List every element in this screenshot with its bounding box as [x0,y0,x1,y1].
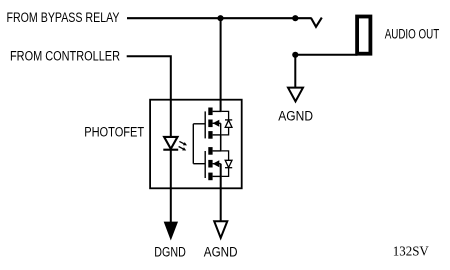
Q1 drain lead [213,110,222,112]
svg-text:AUDIO OUT: AUDIO OUT [385,27,440,42]
wire: controller to LED anode [127,56,171,137]
svg-text:FROM BYPASS RELAY: FROM BYPASS RELAY [7,10,120,25]
wire: gate coupling line [192,124,194,164]
Q2 channel bars [208,147,212,155]
svg-text:FROM CONTROLLER: FROM CONTROLLER [10,48,120,63]
wire: bypass relay net [127,17,312,19]
Q2 drain lead [213,150,222,152]
node: jack tip terminal [292,15,298,21]
ground DGND [164,222,177,239]
svg-text:DGND: DGND [154,244,186,259]
LED light emission arrows [179,141,187,150]
photofet Q1 (top FET) [193,108,221,139]
node: relay/drain junction [217,15,223,21]
Q1 gate line [204,111,206,138]
node: audio out sleeve junction [292,52,298,58]
wire: junction down to photofet drain [220,18,222,111]
ground AGND (audio out) [288,88,303,102]
jack switch contact [311,18,322,27]
optocoupler box U1 PHOTOFET [150,100,242,189]
wire: Q2 source to AGND [220,164,222,222]
Q2 gate lead [193,163,205,165]
ground AGND (photofet) [214,221,227,238]
wire: LED cathode to DGND [170,150,172,223]
audio jack J1 [357,17,370,54]
Q2 source lead [213,175,222,177]
svg-text:AGND: AGND [278,109,313,124]
svg-text:PHOTOFET: PHOTOFET [84,124,144,139]
svg-text:132SV: 132SV [393,243,429,258]
wire: sleeve junction to AGND [294,55,296,87]
photofet Q2 (bottom FET) [193,147,221,180]
wire: Q1 source to Q2 drain [220,135,222,151]
svg-text:AGND: AGND [204,244,238,259]
Q1 source lead [213,134,222,136]
Q1 body-source tie [220,123,222,135]
Q2 gate line [204,151,206,178]
Q1 channel bars [208,108,212,116]
body diode of Q2 [222,151,233,177]
wire: sleeve junction to jack [295,54,357,56]
Q1 body lead + arrow [213,122,221,124]
Q1 gate lead [193,123,205,125]
Q2 body lead + arrow [213,163,221,165]
LED D1 photofet emitter [163,137,178,150]
body diode of Q1 [222,111,233,134]
